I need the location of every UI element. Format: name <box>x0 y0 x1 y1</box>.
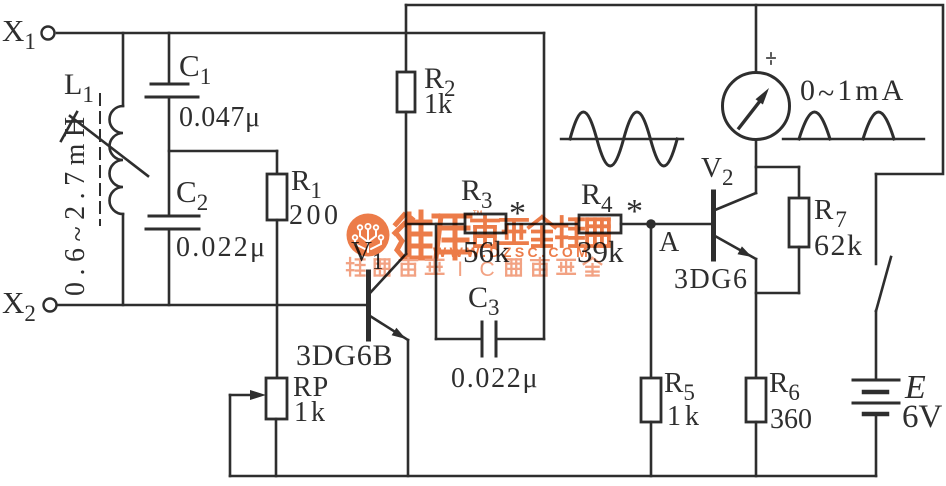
resistor R1 <box>276 151 279 174</box>
watermark characters 电子市场网 <box>472 217 498 246</box>
svg-text:0.6~2.7mH: 0.6~2.7mH <box>60 110 94 296</box>
svg-text:62k: 62k <box>814 229 864 262</box>
wire: RP wiper to bottom rail <box>229 395 232 476</box>
wire: R1 bottom through X2 rail down to RP <box>276 220 279 378</box>
wire: collector node to R3 <box>406 223 465 226</box>
transistor V2 3DG6 base bar <box>711 192 716 259</box>
battery E 6V <box>875 311 878 380</box>
potentiometer RP <box>266 378 287 419</box>
watermark logo circle <box>347 214 390 257</box>
svg-text:*: * <box>509 195 526 232</box>
resistor R4 <box>579 215 621 233</box>
wire: R3 right to R4 <box>506 223 579 226</box>
transistor V1 3DG6B base bar <box>366 272 371 339</box>
wire: R2 bottom lead to collector node <box>405 112 408 254</box>
sine waveform illustration <box>561 138 683 140</box>
wire: left border of supply box down to R2 top <box>405 5 408 72</box>
inductor L1 <box>122 33 125 106</box>
svg-text:1k: 1k <box>424 89 452 120</box>
rectified waveform illustration <box>783 138 924 140</box>
watermark big characters 维库 <box>395 212 430 258</box>
watermark row: light slogan characters <box>347 258 365 276</box>
wire: V2 emitter down to R6 <box>755 259 758 378</box>
svg-text:A: A <box>659 227 680 258</box>
capacitor C3 loop <box>435 224 438 339</box>
V2 emitter with arrow <box>715 236 756 259</box>
meter polarity + mark <box>767 57 775 59</box>
wire: X1 horizontal rail <box>57 32 544 35</box>
capacitor C2 <box>149 215 199 218</box>
svg-text:I: I <box>457 258 463 281</box>
svg-text:1k: 1k <box>667 401 703 432</box>
capacitor C1 <box>168 33 171 84</box>
node A junction dot <box>646 219 656 229</box>
L1 adjustment arrow <box>70 116 148 176</box>
wire: vertical from X1 rail down right side of R3/C3 loop <box>543 33 546 339</box>
V2 collector <box>715 193 756 210</box>
wire: bottom ground rail <box>230 475 876 478</box>
RP wiper arrow <box>230 394 254 397</box>
wire: Q1 emitter to bottom rail <box>407 340 410 476</box>
meter 0~1mA <box>723 73 790 140</box>
wire: meter top lead <box>755 5 758 73</box>
resistor R2 <box>397 72 415 112</box>
wire: collector node to R7 top <box>756 166 799 169</box>
terminal X1 <box>42 27 55 40</box>
svg-text:0.022μ: 0.022μ <box>451 363 539 394</box>
resistor R3 <box>465 214 506 233</box>
switch S <box>875 174 878 264</box>
svg-text:3DG6: 3DG6 <box>674 264 748 295</box>
terminal X2 <box>44 299 57 312</box>
resistor R7 <box>798 167 801 198</box>
svg-text:6V: 6V <box>902 399 943 435</box>
svg-text:1k: 1k <box>294 397 328 428</box>
L1 core dashed line <box>99 94 101 225</box>
svg-text:™: ™ <box>472 209 483 221</box>
Q1 emitter with arrow <box>370 316 408 340</box>
svg-text:200: 200 <box>289 200 342 231</box>
wire: top border of supply box <box>406 5 943 174</box>
resistor R5 <box>650 224 653 378</box>
wire: C1/C2 junction to R1 <box>169 150 277 153</box>
svg-text:3DG6B: 3DG6B <box>296 339 393 372</box>
wire: meter bottom lead to collector node <box>755 140 758 168</box>
Q1 collector <box>370 254 406 293</box>
wire: R7 bottom to emitter <box>756 292 799 295</box>
wire: X2 horizontal rail to Q1 base <box>57 304 366 307</box>
svg-text:*: * <box>626 193 643 230</box>
svg-text:C: C <box>480 258 495 281</box>
svg-text:0~1mA: 0~1mA <box>800 74 906 110</box>
svg-text:360: 360 <box>770 404 812 435</box>
svg-text:0.047μ: 0.047μ <box>179 102 261 133</box>
svg-text:0.022μ: 0.022μ <box>176 232 267 263</box>
wire: R4 to V2 base <box>621 223 711 226</box>
resistor R6 <box>746 378 766 422</box>
